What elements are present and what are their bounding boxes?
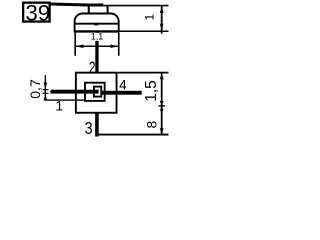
dimension line 1,5 / 8 (right) [160, 73, 164, 136]
lead of pin 1 [51, 90, 99, 94]
svg-text:1,5: 1,5 [143, 80, 160, 102]
svg-text:39: 39 [25, 0, 50, 25]
callout box 39 [23, 0, 50, 25]
svg-text:8: 8 [143, 120, 159, 128]
svg-text:2: 2 [89, 59, 96, 78]
inner contact square [94, 87, 101, 97]
cap dome outline [75, 14, 119, 32]
switch body outline [76, 73, 117, 113]
cap nub sides [89, 6, 108, 14]
dimension line 1 (top right) [160, 5, 164, 34]
lead of pin 2 [95, 31, 98, 73]
outer contact square [85, 83, 105, 101]
svg-text:4: 4 [119, 78, 127, 93]
dimension line 0,7 (left) [43, 75, 49, 101]
extension line top right (for dim 1) [103, 5, 168, 7]
extension line right of body bottom [120, 30, 169, 32]
lead of pin 4 [101, 91, 141, 95]
extension lines for dim 1,1 [75, 32, 119, 56]
lead of pin 3 [95, 113, 99, 136]
svg-text:1: 1 [142, 14, 156, 21]
svg-text:3: 3 [85, 118, 93, 138]
value label 1,1 [91, 32, 104, 42]
bottom extension line from pin 3 [98, 134, 168, 136]
cap body bottom line [74, 30, 120, 32]
svg-text:1: 1 [55, 98, 63, 114]
leader line from box 39 to cap nub [51, 4, 104, 5]
extension line from body top (right) [118, 72, 169, 74]
pin 1 reference line [46, 99, 85, 101]
cap separation line [75, 23, 119, 25]
middle tick (right dims) [159, 105, 166, 107]
dash mark on cap [94, 23, 98, 26]
dimension line 1,1 [75, 45, 119, 49]
svg-text:0,7: 0,7 [27, 79, 43, 99]
svg-text:1,1: 1,1 [91, 32, 104, 42]
